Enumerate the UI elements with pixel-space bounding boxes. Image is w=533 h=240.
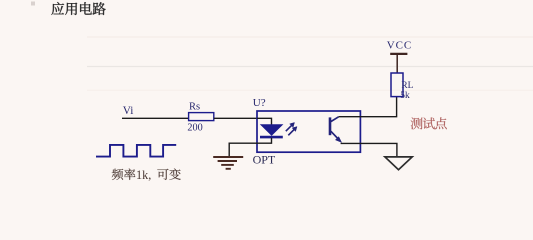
square wave input symbol [96,145,176,157]
svg-text:U?: U? [253,97,266,109]
annotation 频率1k,可变 [112,168,181,182]
test point label 测试点 [411,117,447,129]
wire anode into LED [257,118,272,124]
title 应用电路 [51,2,105,15]
wire Vi to Rs [122,117,188,119]
VCC power bar [390,53,407,55]
faint rule 2 [87,66,533,68]
ground (earth symbol) [213,157,243,169]
wire collector to RL bottom [339,97,397,117]
svg-text:Vi: Vi [123,105,134,117]
svg-text:OPT: OPT [253,152,276,166]
svg-text:RL: RL [401,81,413,91]
phototransistor emitter [331,131,340,140]
svg-text:1k,: 1k, [136,168,151,182]
svg-text:VCC: VCC [387,40,412,52]
wire LED cathode to ground [229,138,271,157]
resistor Rs [189,113,214,121]
light emission arrow 2 [288,127,297,136]
phototransistor Q of U?: base bar [329,117,332,135]
emitter arrowhead [335,137,341,143]
svg-text:200: 200 [187,123,202,134]
phototransistor collector [331,117,339,122]
faint rule 1 [87,36,533,38]
optocoupler U? body [257,111,360,152]
LED triangle (emitter diode of U?) [261,125,282,136]
svg-text:Rs: Rs [189,101,200,112]
LED cathode bar [260,136,283,139]
faint rule 3 [87,89,533,91]
resistor RL [391,73,403,97]
ground (open triangle) [385,157,412,170]
light emission arrow 1 [286,123,295,132]
wire emitter to ground [341,143,397,156]
svg-text:5k: 5k [400,91,410,101]
wire VCC to RL [396,54,398,73]
wire Rs to optocoupler anode [214,117,257,119]
